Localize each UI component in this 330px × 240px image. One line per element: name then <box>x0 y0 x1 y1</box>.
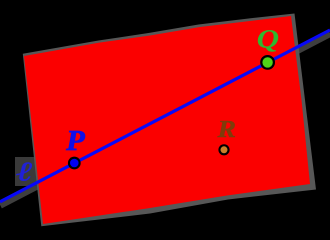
red plane <box>24 16 310 224</box>
gray fringe quadrilateral behind plane <box>23 14 316 227</box>
line l (blue) <box>0 30 330 202</box>
svg-text:R: R <box>216 115 236 142</box>
point R <box>218 144 229 155</box>
label box behind l <box>15 157 38 186</box>
svg-text:P: P <box>65 126 86 157</box>
point Q <box>260 55 275 70</box>
point P <box>68 157 81 170</box>
wire halo of line l on black background <box>0 33 330 205</box>
svg-text:Q: Q <box>257 25 280 54</box>
svg-text:ℓ: ℓ <box>16 157 33 187</box>
